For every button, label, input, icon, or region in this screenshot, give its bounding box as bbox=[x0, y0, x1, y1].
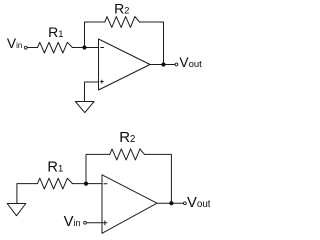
terminal Vout (bottom) bbox=[184, 202, 187, 205]
svg-text:R2: R2 bbox=[119, 129, 135, 146]
svg-text:Vout: Vout bbox=[179, 55, 202, 70]
resistor R1 (top) bbox=[38, 42, 73, 53]
svg-text:R1: R1 bbox=[47, 160, 63, 176]
node dot: top output junction bbox=[161, 62, 165, 66]
terminal Vin (top) bbox=[24, 46, 27, 49]
resistor R2 (top) bbox=[105, 17, 140, 28]
wire R2 to output node (top) bbox=[140, 22, 164, 65]
terminal Vin (bottom) bbox=[84, 221, 87, 224]
plus sign U1 bbox=[100, 80, 103, 83]
plus sign U2 bbox=[103, 221, 107, 225]
wire ground to R1 (bottom) bbox=[17, 184, 38, 204]
wire feedback tap up (top) bbox=[85, 22, 105, 48]
terminal Vout (top) bbox=[175, 63, 178, 66]
node dot: bottom inverting input junction bbox=[84, 182, 88, 186]
svg-text:R2: R2 bbox=[114, 1, 129, 17]
wire Vin to non-inverting input (bottom) bbox=[87, 222, 102, 224]
node dot: bottom output junction bbox=[169, 201, 173, 205]
svg-text:Vin: Vin bbox=[7, 36, 22, 51]
wire output to Vout (bottom) bbox=[157, 202, 183, 204]
wire R1 to op-amp inverting input (bottom) bbox=[72, 183, 102, 185]
node dot: top inverting input junction bbox=[82, 45, 86, 49]
minus sign U1 bbox=[101, 47, 104, 49]
minus sign U2 bbox=[104, 183, 107, 185]
svg-text:R1: R1 bbox=[48, 24, 63, 40]
wire output to Vout (top) bbox=[150, 64, 175, 66]
resistor R2 (bottom) bbox=[110, 149, 145, 160]
wire feedback tap up (bottom) bbox=[86, 154, 110, 183]
resistor R1 (bottom) bbox=[38, 178, 73, 189]
op-amp U2 triangle bbox=[102, 175, 157, 234]
wire R1 to op-amp inverting input bbox=[72, 47, 98, 49]
svg-text:Vout: Vout bbox=[187, 195, 210, 211]
wire non-inverting input to ground (top) bbox=[85, 82, 99, 102]
ground (bottom) bbox=[7, 204, 26, 216]
ground (top) bbox=[75, 102, 94, 113]
svg-text:Vin: Vin bbox=[64, 214, 81, 230]
wire R2 to output node (bottom) bbox=[145, 154, 172, 203]
op-amp U1 triangle bbox=[99, 39, 151, 90]
wire Vin to R1 bbox=[28, 47, 38, 49]
